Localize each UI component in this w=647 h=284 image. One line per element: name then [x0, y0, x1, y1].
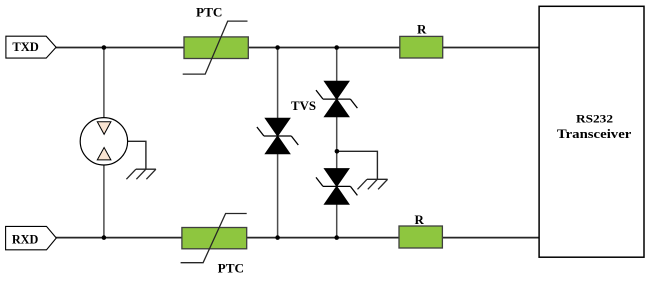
junction dot (RXD / GDT)	[102, 235, 107, 240]
label R (top)	[417, 22, 427, 37]
port RXD	[6, 226, 57, 249]
resistor R (top)	[400, 36, 443, 58]
wire left TVS column lower	[277, 154, 279, 238]
junction dot (TXD / left TVS)	[275, 45, 280, 50]
svg-text:PTC: PTC	[196, 5, 222, 20]
gas discharge tube GDT	[80, 118, 127, 165]
svg-text:RXD: RXD	[12, 231, 39, 246]
wire right TVS column middle	[336, 117, 338, 169]
IC U1 RS232 Transceiver	[539, 6, 644, 257]
wire RXD net (bottom horizontal)	[56, 237, 539, 239]
svg-text:Transceiver: Transceiver	[557, 127, 632, 141]
TVS diode (right bottom)	[316, 169, 357, 205]
label PTC (bottom)	[218, 261, 244, 276]
svg-text:TXD: TXD	[12, 39, 39, 54]
chassis ground (GDT)	[126, 169, 155, 179]
svg-text:RS232: RS232	[576, 111, 613, 125]
wire left TVS column upper	[277, 48, 279, 119]
junction dot (RXD / right TVS)	[334, 235, 339, 240]
label R (bottom)	[415, 212, 425, 227]
junction dot (RXD / left TVS)	[275, 235, 280, 240]
wire TXD net (top horizontal)	[56, 47, 539, 49]
wire mid junction to chassis ground	[337, 151, 378, 179]
label PTC (top)	[196, 5, 222, 20]
resistor PTC (top)	[183, 21, 249, 74]
junction dot (TXD / GDT)	[102, 45, 107, 50]
wire GDT column lower	[103, 165, 105, 238]
resistor R (bottom)	[399, 226, 442, 248]
port TXD	[6, 36, 56, 58]
junction dot (TVS midpoint / ground tap)	[335, 149, 340, 154]
TVS diode (right top)	[316, 81, 357, 116]
junction dot (TXD / right TVS)	[334, 45, 339, 50]
chassis ground (TVS mid)	[358, 179, 388, 189]
svg-text:R: R	[415, 212, 425, 227]
wire right TVS column lower	[336, 204, 338, 237]
wire GDT to chassis ground	[128, 141, 146, 169]
wire right TVS column upper	[336, 48, 338, 82]
TVS diode (left, on TXD branch)	[257, 118, 298, 154]
svg-text:TVS: TVS	[291, 98, 316, 113]
svg-text:PTC: PTC	[218, 261, 244, 276]
wire GDT column upper	[103, 48, 105, 118]
label TVS	[291, 98, 316, 113]
svg-text:R: R	[417, 22, 427, 37]
resistor PTC (bottom)	[181, 214, 247, 263]
